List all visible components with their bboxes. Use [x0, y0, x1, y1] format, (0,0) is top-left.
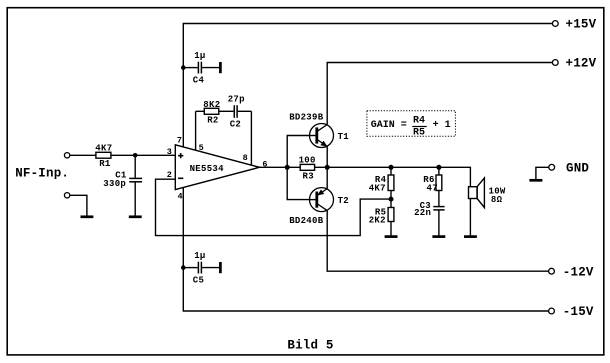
svg-text:R3: R3 — [303, 172, 314, 182]
svg-text:NF-Inp.: NF-Inp. — [15, 166, 69, 180]
speaker LS1 10W 8ohm — [469, 178, 506, 208]
svg-text:5: 5 — [199, 143, 204, 153]
svg-text:C2: C2 — [230, 119, 241, 129]
svg-text:GND: GND — [566, 162, 589, 176]
wire C4 branch — [183, 67, 197, 69]
junction R4 top node — [389, 165, 394, 170]
svg-text:8: 8 — [243, 153, 248, 163]
wire C1 bottom to ground — [134, 182, 136, 215]
wire +15V rail from op-amp pin7 — [183, 24, 552, 147]
capacitor C2 27p — [228, 95, 245, 130]
svg-text:R1: R1 — [99, 159, 111, 169]
transistor Q1 T1 BD239B — [289, 112, 349, 147]
input lower terminal circle — [64, 193, 69, 198]
wire R6 to C3 — [438, 191, 440, 207]
svg-text:-12V: -12V — [563, 265, 594, 279]
junction R6 top node — [436, 165, 441, 170]
svg-text:1µ: 1µ — [194, 251, 205, 261]
wire C3 to ground — [438, 211, 440, 236]
svg-text:NE5534: NE5534 — [190, 164, 225, 174]
svg-text:4: 4 — [178, 192, 183, 202]
svg-text:100: 100 — [299, 156, 316, 166]
wire C1 top — [134, 155, 136, 178]
resistor R1 4K7 — [95, 143, 112, 169]
wire +12V rail from T1 collector — [327, 63, 552, 125]
terminal -15V — [549, 305, 594, 319]
wire R2 to C2 — [219, 110, 234, 112]
svg-text:BD240B: BD240B — [289, 216, 324, 226]
resistor R3 100 — [299, 156, 316, 182]
wire GND terminal stub — [536, 167, 549, 179]
svg-text:R4: R4 — [413, 116, 425, 127]
junction C4/pin7 rail — [181, 65, 186, 70]
capacitor C3 22n — [414, 201, 445, 218]
svg-text:3: 3 — [167, 147, 172, 157]
wire -15V rail from op-amp pin4 — [183, 188, 548, 312]
wire pin5 up — [195, 111, 197, 150]
svg-text:+12V: +12V — [566, 57, 597, 71]
wire lower input terminal to ground — [70, 195, 87, 216]
op-amp U1 NE5534 triangle — [175, 145, 259, 190]
terminal GND — [549, 162, 590, 176]
op-amp plus input mark — [178, 153, 183, 158]
terminal +15V — [552, 18, 596, 32]
transistor Q2 T2 BD240B — [289, 188, 349, 227]
svg-text:47: 47 — [427, 184, 438, 194]
wire op-amp output to base node — [259, 166, 300, 168]
svg-text:4K7: 4K7 — [95, 143, 112, 153]
wire T2 emitter up to output node — [326, 167, 328, 188]
capacitor C4 1µ — [193, 51, 221, 85]
resistor R4 4K7 — [369, 175, 394, 194]
svg-text:R5: R5 — [413, 127, 425, 138]
svg-text:GAIN =: GAIN = — [371, 120, 407, 131]
svg-text:T2: T2 — [338, 196, 349, 206]
svg-text:+ 1: + 1 — [433, 120, 451, 131]
junction output/base node — [285, 165, 290, 170]
svg-text:Bild 5: Bild 5 — [287, 339, 333, 353]
svg-text:27p: 27p — [228, 95, 245, 105]
wire input to R1 — [70, 154, 96, 156]
capacitor C1 330p — [103, 170, 142, 188]
op-amp minus input mark — [178, 177, 183, 179]
input terminal circle NF — [64, 153, 69, 158]
svg-text:-15V: -15V — [563, 305, 594, 319]
wire R3 to speaker corner — [315, 167, 471, 186]
svg-text:C5: C5 — [193, 275, 204, 285]
wire pin8 up — [250, 111, 252, 165]
resistor R2 8K2 — [203, 100, 220, 126]
svg-text:6: 6 — [262, 159, 267, 169]
svg-text:330p: 330p — [103, 179, 126, 189]
svg-text:2: 2 — [167, 170, 172, 180]
wire feedback pin2 to R4/R5 node — [156, 179, 392, 235]
wire R1 to pin3 — [111, 154, 175, 156]
svg-text:8Ω: 8Ω — [491, 195, 503, 205]
wire R5 top — [390, 199, 392, 207]
ground GND terminal — [529, 179, 542, 182]
wire base rail T1/T2 — [287, 136, 309, 200]
wire R4 bottom — [390, 191, 392, 200]
svg-text:1µ: 1µ — [194, 51, 205, 61]
svg-text:4K7: 4K7 — [369, 184, 386, 194]
svg-text:+15V: +15V — [566, 18, 597, 32]
wire T1 emitter down to output node — [326, 146, 328, 167]
svg-text:8K2: 8K2 — [203, 100, 220, 110]
wire R6 top — [438, 167, 440, 175]
wire pin5 to R2 — [196, 110, 205, 112]
svg-text:2K2: 2K2 — [369, 215, 386, 225]
svg-text:R2: R2 — [207, 116, 218, 126]
junction R1/C1 node — [133, 153, 138, 158]
svg-text:BD239B: BD239B — [289, 112, 324, 122]
resistor R5 2K2 — [369, 208, 394, 226]
ground C1 — [129, 215, 142, 218]
terminal -12V — [549, 265, 594, 279]
svg-text:C4: C4 — [193, 75, 205, 85]
ground R5 — [385, 235, 398, 238]
ground C3 — [432, 235, 445, 238]
wire R5 bottom to ground — [390, 222, 392, 236]
junction R4/R5 feedback node — [389, 197, 394, 202]
wire speaker to ground — [469, 199, 471, 236]
resistor R6 47 — [423, 175, 442, 194]
wire C5 branch — [183, 267, 197, 269]
junction emitter node — [325, 165, 330, 170]
junction C5/pin4 rail — [181, 265, 186, 270]
wire C2 to pin8 — [238, 110, 252, 112]
ground speaker — [464, 235, 477, 238]
wire -12V rail from T2 collector — [327, 211, 548, 272]
svg-text:22n: 22n — [414, 208, 431, 218]
terminal +12V — [552, 57, 596, 71]
wire R4 top — [390, 167, 392, 175]
gain formula box — [367, 111, 456, 139]
svg-text:T1: T1 — [338, 132, 350, 142]
svg-text:7: 7 — [177, 136, 182, 146]
capacitor C5 1µ — [193, 251, 221, 285]
ground lower input — [81, 215, 94, 218]
